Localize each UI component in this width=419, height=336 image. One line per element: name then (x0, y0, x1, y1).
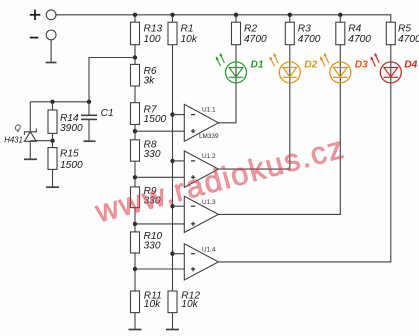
svg-text:10k: 10k (181, 34, 198, 45)
svg-text:C1: C1 (101, 108, 114, 119)
resistor R12 (168, 290, 200, 312)
resistor R10 (131, 231, 163, 253)
wire stub rail to R2 (235, 15, 237, 22)
svg-text:R15: R15 (60, 149, 79, 160)
junction C1 top (87, 100, 91, 104)
resistor R3 (285, 22, 320, 45)
junction R10/R11 tap (133, 267, 137, 271)
op-amp U1.4 (184, 244, 218, 280)
wire signal to U1.4 - input (173, 253, 185, 255)
resistor R9 (131, 186, 161, 208)
ground (minus terminal) (46, 62, 57, 64)
ground (C1) (84, 140, 96, 142)
junction signal/U1.3 - input (170, 204, 174, 208)
wire R15 to ground (52, 169, 54, 187)
LED D2 (270, 53, 318, 83)
junction signal/U1.4 - input (170, 252, 174, 256)
junction rail/R4 (338, 13, 342, 17)
wire tap to U1.1 + input (135, 130, 184, 132)
terminal plus (30, 10, 56, 20)
wire signal to U1.1 - input (173, 114, 185, 116)
svg-text:D4: D4 (404, 60, 417, 71)
wire tap to U1.3 + input (135, 223, 184, 225)
junction R13/R6 tap (133, 55, 137, 59)
junction rail/R2 (234, 13, 238, 17)
svg-text:D2: D2 (304, 60, 317, 71)
wire signal line R1 to R12 (172, 45, 174, 291)
svg-text:4700: 4700 (244, 34, 267, 45)
wire R12 to ground (172, 313, 174, 330)
svg-text:D1: D1 (251, 60, 264, 71)
svg-text:330: 330 (144, 149, 161, 160)
resistor R14 (48, 110, 83, 134)
wire tap to U1.2 + input (135, 176, 184, 178)
svg-text:330: 330 (144, 241, 161, 252)
resistor R7 (131, 103, 167, 125)
junction R9/R10 tap (133, 222, 137, 226)
wire R9 to R10 (134, 208, 136, 232)
svg-text:R13: R13 (144, 23, 163, 34)
svg-text:R1: R1 (181, 23, 194, 34)
wire R7 to R8 (134, 125, 136, 140)
svg-text:3k: 3k (144, 76, 156, 87)
svg-text:100: 100 (144, 34, 161, 45)
svg-text:10k: 10k (144, 299, 161, 310)
junction rail/R3 (288, 13, 292, 17)
op-amp U1.3 (184, 196, 218, 232)
LED D3 (320, 53, 368, 83)
svg-text:R3: R3 (298, 23, 311, 34)
wire signal to U1.3 - input (173, 205, 185, 207)
svg-text:10k: 10k (181, 299, 198, 310)
ground (R15) (46, 186, 59, 188)
junction signal/U1.2 - input (170, 159, 174, 163)
junction R7/R8 tap (133, 129, 137, 133)
svg-text:LM339: LM339 (199, 133, 219, 140)
resistor R15 (48, 148, 83, 171)
svg-text:1500: 1500 (60, 160, 83, 171)
resistor R8 (131, 139, 161, 161)
junction rail/R13 (133, 13, 137, 17)
svg-text:R4: R4 (348, 23, 361, 34)
resistor R2 (232, 22, 267, 45)
wire U1.4 output to D4 (218, 45, 390, 262)
resistor R11 (131, 290, 162, 312)
wire stub rail to R13 (134, 15, 136, 22)
op-amp U1.1 (184, 104, 219, 141)
svg-text:H431: H431 (4, 135, 23, 144)
wire R8 to R9 (134, 161, 136, 187)
wire tap to U1.4 + input (135, 268, 184, 270)
svg-text:U1.4: U1.4 (202, 246, 216, 253)
wire R11 to ground (134, 313, 136, 330)
wire R13 to R6 (134, 45, 136, 65)
ground (R11) (129, 329, 142, 331)
wire R14 to R15 (52, 133, 54, 147)
svg-text:R5: R5 (398, 23, 411, 34)
wire U1.1 output to D1 (218, 45, 236, 123)
junction R8/R9 tap (133, 175, 137, 179)
wire stub rail to R4 (339, 15, 341, 22)
svg-text:4700: 4700 (298, 34, 321, 45)
resistor R13 (131, 22, 163, 45)
resistor R4 (336, 22, 371, 45)
wire positive supply rail (56, 15, 391, 22)
wire reference node horizontal (30, 101, 89, 103)
junction R14/R15 reference (50, 139, 54, 143)
svg-text:4700: 4700 (398, 34, 419, 45)
resistor R5 (386, 22, 419, 45)
wire R10 to R11 (134, 253, 136, 291)
ground (R12) (166, 329, 179, 331)
wire minus terminal to ground (50, 40, 52, 63)
wire H431 cathode lead (29, 102, 31, 132)
junction R14 top (50, 100, 54, 104)
svg-text:R2: R2 (244, 23, 257, 34)
svg-text:3900: 3900 (60, 123, 83, 134)
shunt regulator Q H431 (4, 123, 36, 144)
wire tap to C1 and R14 (89, 58, 135, 102)
op-amp U1.2 (184, 151, 218, 187)
wire H431 reference to divider (30, 140, 52, 142)
junction signal/U1.1 - input (170, 112, 174, 116)
svg-text:4700: 4700 (348, 34, 371, 45)
wire R14 top lead (52, 102, 54, 110)
wire H431 anode to ground (29, 141, 31, 159)
terminal minus (30, 30, 56, 40)
wire U1.2 output to D2 (218, 45, 289, 169)
wire R6 to R7 (134, 86, 136, 103)
LED D4 (371, 53, 418, 83)
svg-text:U1.2: U1.2 (202, 153, 216, 160)
svg-text:Q: Q (15, 123, 21, 132)
wire stub rail to R3 (289, 15, 291, 22)
wire signal to U1.2 - input (173, 160, 185, 162)
wire stub rail to R1 (172, 15, 174, 22)
resistor R1 (168, 22, 198, 45)
svg-text:D3: D3 (355, 60, 368, 71)
ground (H431) (24, 158, 37, 160)
junction rail/R1 (170, 13, 174, 17)
capacitor C1 (81, 102, 114, 141)
wire U1.3 output to D3 (218, 45, 340, 215)
svg-text:1500: 1500 (144, 114, 167, 125)
resistor R6 (131, 64, 157, 86)
svg-text:U1.1: U1.1 (202, 106, 216, 113)
LED D1 (216, 53, 264, 83)
